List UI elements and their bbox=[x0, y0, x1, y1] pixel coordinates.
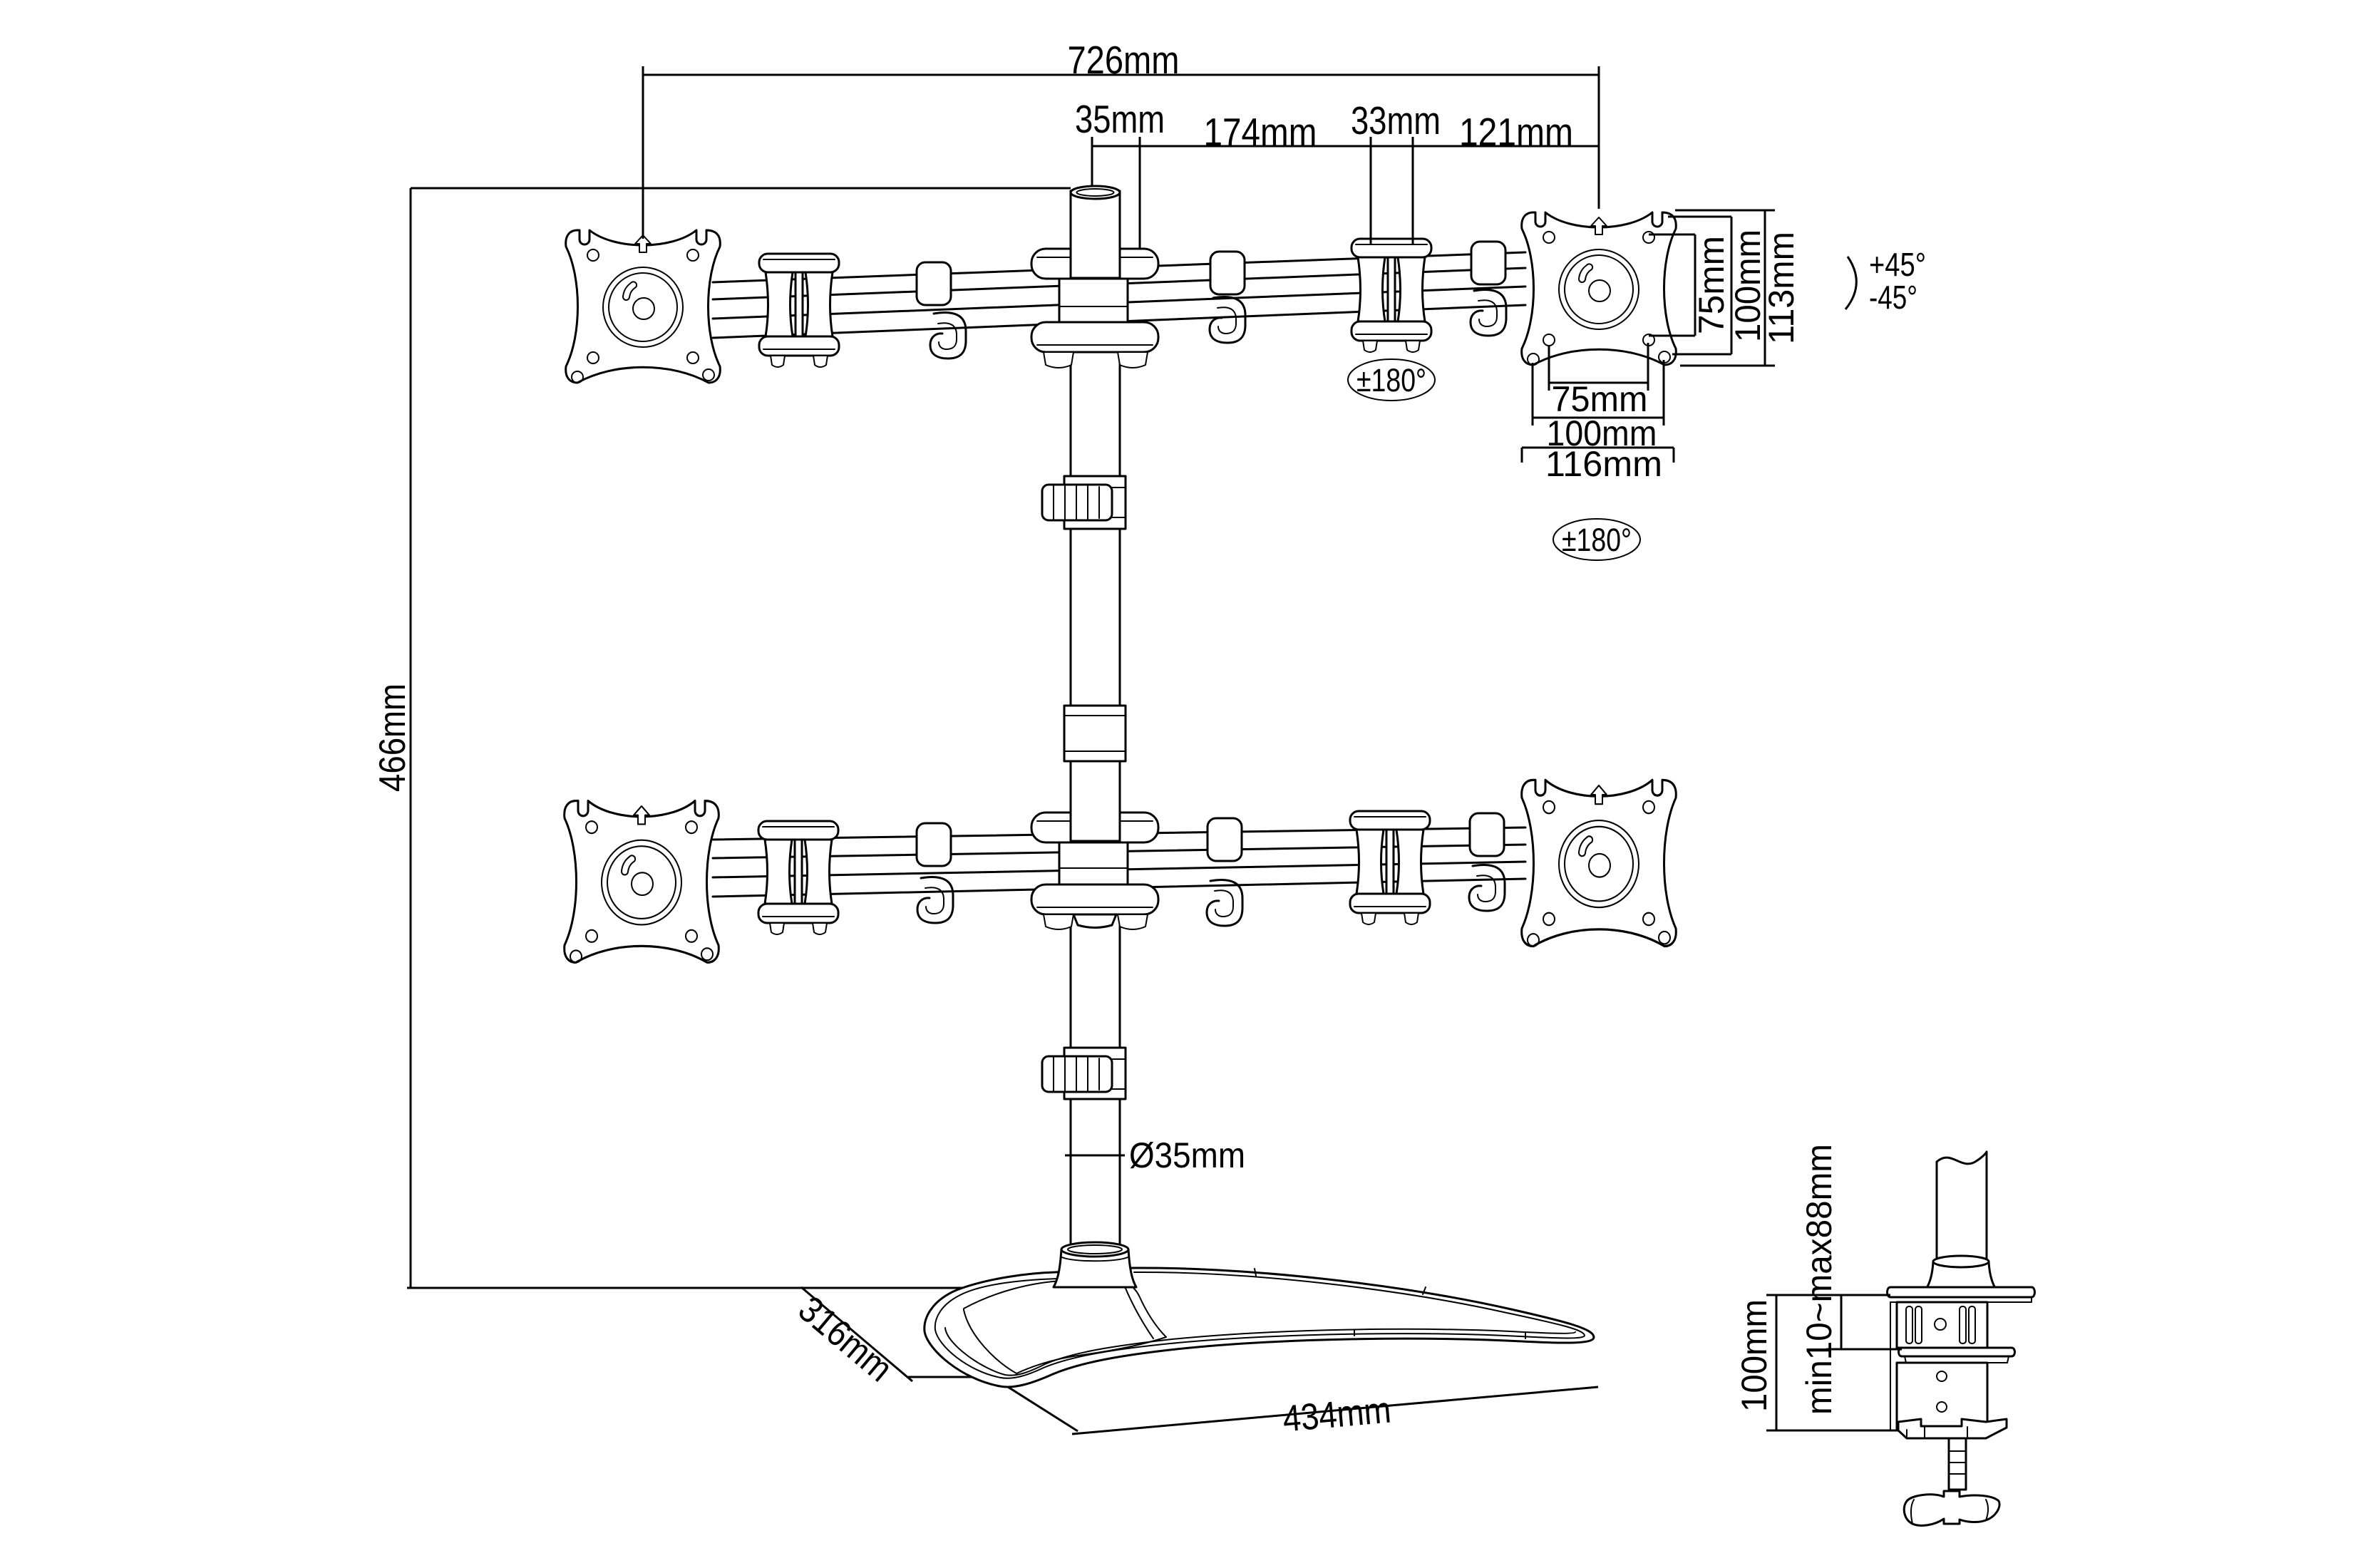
vesa plate bottom-right bbox=[1522, 780, 1677, 946]
726mm bbox=[643, 74, 1599, 76]
wing knob bbox=[1904, 1491, 1999, 1525]
cable hook bottom-mid bbox=[1207, 880, 1242, 926]
tube clamp bottom-left bbox=[758, 821, 838, 934]
cable hook bottom-left bbox=[917, 877, 953, 923]
clip band top-left bbox=[917, 262, 951, 305]
svg-text:113mm: 113mm bbox=[1761, 232, 1801, 344]
clip band bottom-mid bbox=[1208, 818, 1242, 861]
svg-text:466mm: 466mm bbox=[372, 684, 413, 792]
cable hook top-mid bbox=[1210, 296, 1245, 343]
vesa plate bottom-left bbox=[565, 801, 719, 963]
base neck cone bbox=[1054, 1242, 1136, 1287]
svg-text:726mm: 726mm bbox=[1068, 38, 1180, 82]
right vesa horizontal dims bbox=[1549, 343, 1648, 391]
tube clamp top-right bbox=[1351, 239, 1431, 352]
cable hook top-right bbox=[1471, 289, 1506, 336]
cable hook bottom-right bbox=[1469, 865, 1505, 911]
466mm bbox=[410, 188, 412, 1288]
tube clamp bottom-right bbox=[1350, 811, 1430, 924]
collar 1 with knob bbox=[1042, 476, 1126, 529]
svg-text:121mm: 121mm bbox=[1459, 110, 1573, 154]
upper bracket bbox=[1897, 1302, 1987, 1348]
+-45 arc bbox=[1845, 257, 1856, 309]
dims of detail bbox=[1766, 1295, 1897, 1430]
right vesa vertical dims bbox=[1649, 234, 1695, 336]
pole with break bbox=[1937, 1152, 1987, 1263]
cable hook top-left bbox=[930, 312, 966, 359]
clip band top-mid bbox=[1210, 252, 1245, 294]
clip band bottom-left bbox=[917, 823, 951, 866]
svg-text:±180°: ±180° bbox=[1562, 522, 1632, 558]
svg-text:100mm: 100mm bbox=[1734, 1299, 1774, 1412]
vesa plate top-right bbox=[1522, 212, 1677, 365]
clip band bottom-right bbox=[1470, 813, 1504, 856]
vesa plate top-left bbox=[566, 230, 721, 383]
svg-text:Ø35mm: Ø35mm bbox=[1129, 1135, 1245, 1175]
rod bbox=[1949, 1438, 1966, 1490]
second line bbox=[1092, 145, 1599, 148]
mid shelf bbox=[1899, 1348, 2015, 1356]
desk plate bbox=[1888, 1287, 2035, 1297]
+-180 ovals bbox=[1348, 359, 1435, 401]
svg-text:35mm: 35mm bbox=[1075, 97, 1165, 141]
svg-text:-45°: -45° bbox=[1869, 279, 1917, 316]
svg-text:174mm: 174mm bbox=[1204, 110, 1317, 154]
cone bbox=[1927, 1262, 1995, 1288]
svg-text:min10~max88mm: min10~max88mm bbox=[1799, 1144, 1839, 1415]
svg-text:75mm: 75mm bbox=[1692, 236, 1731, 334]
tube clamp top-left bbox=[759, 254, 839, 367]
collar 2 plain bbox=[1064, 706, 1126, 761]
lower body bbox=[1897, 1363, 1987, 1430]
diameter 35 bbox=[1065, 1149, 1125, 1162]
svg-text:116mm: 116mm bbox=[1545, 444, 1662, 484]
bottom arm bbox=[1898, 1419, 2007, 1438]
clip band top-right bbox=[1471, 242, 1505, 284]
svg-text:±180°: ±180° bbox=[1356, 362, 1426, 398]
svg-text:+45°: +45° bbox=[1869, 246, 1926, 283]
svg-text:33mm: 33mm bbox=[1351, 98, 1441, 143]
collar 3 with knob bbox=[1042, 1048, 1126, 1099]
